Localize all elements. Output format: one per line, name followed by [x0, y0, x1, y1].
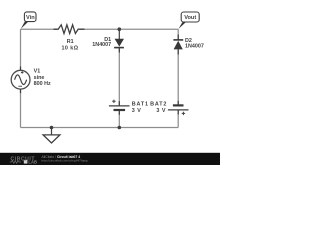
node Vin flag [21, 12, 36, 29]
wire: BAT1 bottom to bottom net [118, 110, 120, 128]
svg-text:3 V: 3 V [156, 108, 166, 114]
svg-text:800 Hz: 800 Hz [34, 81, 51, 87]
svg-text:http​://circuitlab.com/c/eqd/4: http​://circuitlab.com/c/eqd/47fqwg [42, 158, 88, 162]
diode D1 [114, 29, 124, 52]
footer bar [0, 153, 220, 165]
svg-text:BAT2: BAT2 [150, 101, 167, 107]
wire: top net from R1 to node A [80, 28, 120, 30]
wire: left vertical V1 bottom to ground net [20, 89, 22, 127]
footer CircuitLab logo [10, 156, 37, 164]
node A junction dot [118, 27, 122, 31]
diode D2 [173, 35, 183, 55]
wire: bottom ground net [21, 127, 179, 129]
svg-text:10 kΩ: 10 kΩ [61, 45, 78, 51]
svg-text:BAT1: BAT1 [132, 101, 149, 107]
ground [43, 128, 60, 144]
footer attribution text [42, 155, 88, 162]
svg-text:3 V: 3 V [132, 108, 142, 114]
wire: right vertical Vout corner to D2 [177, 29, 179, 40]
wire: top net from node A to Vout corner [119, 28, 178, 30]
battery BAT2 [168, 101, 189, 115]
wire: top net from Vin corner to R1 [21, 28, 58, 30]
svg-text:R1: R1 [67, 39, 74, 45]
svg-text:Vin: Vin [26, 15, 35, 21]
wire: D2 anode down to BAT2 [177, 49, 179, 105]
svg-text:sine: sine [34, 75, 45, 81]
junction: BAT1 on bottom net [118, 126, 122, 130]
resistor R1 [54, 25, 85, 34]
wire: left vertical Vin to V1 top [20, 29, 22, 70]
svg-text:LAB: LAB [28, 160, 37, 165]
svg-text:V1: V1 [34, 69, 41, 75]
wire: BAT2 bottom to bottom net [177, 110, 179, 128]
svg-text:Vout: Vout [184, 15, 196, 21]
battery BAT1 [109, 100, 130, 115]
node Vout flag [179, 12, 200, 29]
svg-text:1N4007: 1N4007 [185, 44, 204, 50]
svg-text:1N4007: 1N4007 [92, 42, 111, 48]
wire: D1 cathode down to BAT1 [118, 48, 120, 106]
voltage source V1 [11, 67, 30, 94]
junction: ground tap on bottom net [50, 126, 54, 130]
